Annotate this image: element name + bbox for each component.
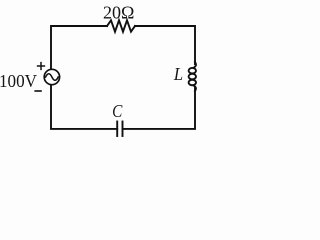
wire top-right segment (135, 26, 195, 64)
resistor R 20ohm zigzag (107, 20, 135, 31)
polarity minus sign (35, 90, 41, 92)
wire top-left segment (51, 26, 107, 69)
svg-text:100V: 100V (0, 71, 37, 91)
capacitor C plates (116, 122, 118, 137)
inductor L coil (189, 62, 196, 91)
svg-text:C: C (112, 101, 123, 121)
svg-text:L: L (173, 64, 183, 84)
wire bottom-left segment (51, 85, 117, 129)
AC voltage source 100V circle (44, 69, 59, 84)
AC source sine symbol (46, 74, 59, 81)
svg-text:20Ω: 20Ω (103, 3, 134, 23)
wire right-bottom segment (123, 88, 196, 129)
polarity plus sign (38, 63, 45, 70)
